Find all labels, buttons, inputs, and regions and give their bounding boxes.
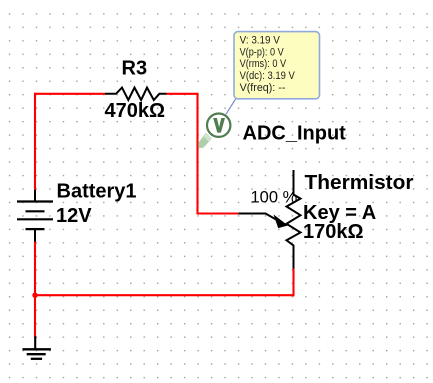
wire: resistor right to corner and down to wiper level <box>167 94 198 214</box>
label Key = A <box>303 202 376 224</box>
label Thermistor <box>305 172 414 194</box>
svg-text:12V: 12V <box>56 205 92 227</box>
wire: wiper horizontal red segment <box>197 212 239 214</box>
svg-text:V(freq): --: V(freq): -- <box>240 82 286 94</box>
probe pointer line <box>226 99 236 114</box>
svg-text:V: 3.19 V: V: 3.19 V <box>240 35 281 47</box>
probe tooltip readout <box>234 32 320 99</box>
wire: bottom rail <box>34 294 295 296</box>
wire: left vertical from top rail to battery + terminal <box>34 93 36 190</box>
svg-text:470kΩ: 470kΩ <box>105 100 166 122</box>
value 470kΩ <box>105 100 166 122</box>
net name ADC_Input <box>243 123 347 145</box>
svg-text:V(p-p): 0 V: V(p-p): 0 V <box>240 46 285 58</box>
label R3 refdes <box>122 58 148 80</box>
potentiometer Thermistor <box>287 170 301 269</box>
wire: thermistor bottom lead to bottom rail <box>292 269 294 297</box>
svg-text:R3: R3 <box>122 58 148 80</box>
junction node at battery/ground/bottom rail <box>32 293 37 298</box>
svg-text:ADC_Input: ADC_Input <box>243 123 347 145</box>
label Battery1 <box>57 181 137 203</box>
value 12V <box>56 205 92 227</box>
resistor R3 <box>105 88 167 100</box>
wiper arrow of Thermistor <box>238 214 286 228</box>
wiper percent 100 % <box>251 189 298 207</box>
svg-text:100 %: 100 % <box>251 189 298 207</box>
svg-text:V(rms): 0 V: V(rms): 0 V <box>240 58 287 70</box>
svg-text:Thermistor: Thermistor <box>305 172 414 194</box>
svg-text:V(dc): 3.19 V: V(dc): 3.19 V <box>240 70 296 82</box>
voltage probe (magnifier icon) <box>198 114 230 149</box>
battery Battery1 <box>17 190 53 242</box>
value 170kΩ <box>303 221 364 243</box>
svg-text:170kΩ: 170kΩ <box>303 221 364 243</box>
svg-text:Battery1: Battery1 <box>57 181 137 203</box>
ground <box>23 336 51 359</box>
wire: battery - terminal down to bottom rail junction and ground stub <box>34 241 36 337</box>
wire: top rail from battery to resistor <box>34 93 105 95</box>
